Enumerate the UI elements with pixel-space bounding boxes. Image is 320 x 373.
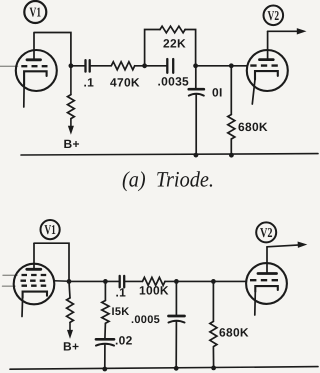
capacitor .0005 <box>131 281 185 368</box>
label V2 bottom <box>256 222 276 242</box>
node A <box>142 63 147 68</box>
tube V1 bottom (pentode) <box>14 244 69 317</box>
wire node to 15K node <box>69 280 120 282</box>
wire output arrow bottom <box>267 242 307 248</box>
node 680K top <box>211 279 216 284</box>
resistor 15K <box>102 281 130 338</box>
svg-text:I5K: I5K <box>112 306 130 318</box>
node plate/coupling bottom <box>67 279 72 284</box>
capacitor .1 bottom <box>116 276 127 299</box>
node ground 680K <box>229 153 234 158</box>
wire grid input V1 top <box>0 65 18 67</box>
capacitor .1 top <box>84 60 95 89</box>
wire resistor to node A <box>135 65 167 67</box>
node plate/coupling top <box>69 63 74 68</box>
resistor B+ top <box>64 66 80 151</box>
svg-text:V2: V2 <box>260 225 273 240</box>
capacitor .01 top <box>189 66 223 155</box>
label V1 bottom <box>41 220 60 239</box>
svg-text:100K: 100K <box>139 284 169 298</box>
wire plate loop V1 bottom <box>34 243 69 281</box>
label V1 top <box>24 1 46 23</box>
node B <box>193 63 198 68</box>
resistor 22K <box>160 26 186 50</box>
label V2 top <box>264 6 284 26</box>
wire grid input V1 bottom (control grid) <box>3 274 17 276</box>
resistor B+ bottom <box>63 281 79 353</box>
wire suppressor lead V1 bottom <box>3 285 16 287</box>
svg-text:B+: B+ <box>64 137 80 151</box>
node C <box>229 63 234 68</box>
ground line bottom <box>10 367 318 370</box>
svg-text:0I: 0I <box>212 86 223 100</box>
tube V1 top <box>16 33 57 107</box>
svg-text:V1: V1 <box>30 5 42 20</box>
svg-text:680K: 680K <box>219 325 249 339</box>
tube V2 bottom <box>246 247 287 315</box>
wire node to cap <box>71 65 86 67</box>
svg-text:22K: 22K <box>163 37 186 51</box>
ground line top <box>21 154 318 155</box>
resistor 100K <box>139 277 169 297</box>
node ground 15K/.02 <box>102 367 107 372</box>
wire cap to 100K <box>124 280 142 282</box>
tube V2 top <box>247 31 288 104</box>
resistor 470K <box>110 62 140 90</box>
capacitor .0035 <box>158 59 190 88</box>
wire output arrow top <box>268 28 307 34</box>
resistor 680K top <box>228 66 268 156</box>
wire plate loop V1 top <box>34 33 71 66</box>
svg-text:V2: V2 <box>268 8 280 23</box>
wire 100K to V2 grid <box>165 280 246 282</box>
svg-text:.0035: .0035 <box>158 74 190 88</box>
node ground .01 <box>194 153 199 158</box>
svg-text:(a) Triode.: (a) Triode. <box>122 166 214 191</box>
svg-text:470K: 470K <box>110 76 140 90</box>
resistor 680K bottom <box>210 281 249 367</box>
node .0005 top <box>174 279 179 284</box>
node 15K top <box>103 279 108 284</box>
capacitor .02 <box>96 333 133 369</box>
svg-text:B+: B+ <box>63 340 79 354</box>
svg-text:.1: .1 <box>84 76 95 90</box>
wire node B to V2 grid <box>196 65 247 67</box>
node ground .0005 <box>174 366 179 371</box>
node ground 680K <box>211 366 216 371</box>
svg-text:.1: .1 <box>116 285 127 299</box>
svg-text:.0005: .0005 <box>131 314 160 326</box>
svg-text:.02: .02 <box>115 333 133 347</box>
svg-text:680K: 680K <box>238 120 268 134</box>
svg-text:V1: V1 <box>44 222 56 237</box>
wire 22K branch <box>145 30 160 66</box>
wire cap to resistor <box>90 65 112 67</box>
